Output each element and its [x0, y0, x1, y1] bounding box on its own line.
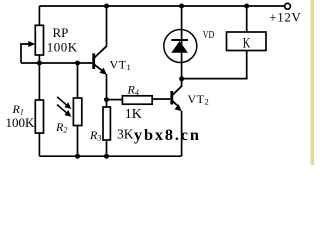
wire: R1 bottom lead [38, 133, 40, 156]
wire: R2 bottom lead [77, 126, 79, 157]
page edge strip [310, 0, 314, 165]
node: rail-VD [179, 4, 184, 9]
diode VD envelope circle [164, 30, 197, 63]
resistor R4 body [122, 96, 152, 104]
node: VT2 collector/VD [179, 76, 184, 81]
relay K coil box [227, 32, 267, 51]
wire: relay K top lead [246, 6, 248, 32]
node: VT1 emitter/R3/R4 [104, 97, 109, 102]
resistor R1 body [35, 100, 43, 133]
wire: VT1 base line [21, 62, 92, 64]
diode VD symbol [171, 40, 188, 53]
svg-text:3K: 3K [117, 127, 134, 142]
transistor VT2 [170, 79, 182, 112]
wire: VT1 emitter lead [106, 74, 108, 107]
terminal: +12V circle [285, 3, 291, 9]
svg-text:ybx8.cn: ybx8.cn [134, 125, 201, 144]
RP wiper arm wire [21, 44, 30, 63]
wire: RP top lead [38, 6, 40, 25]
wire: R2 top lead [77, 63, 79, 98]
wire: VT2 emitter lead [181, 111, 183, 156]
wire: +12V top rail [39, 5, 284, 7]
wire: VT2 collector to relay [182, 51, 247, 79]
node: R3 bottom rail [104, 154, 109, 159]
node: rail-VT1 collector [104, 4, 109, 9]
svg-text:K: K [243, 36, 251, 52]
photoresistor light arrow 2 [57, 105, 71, 117]
RP wiper arrowhead [28, 41, 35, 47]
wire: R4 right lead to VT2 base [152, 98, 170, 100]
node: R2 base line [75, 61, 80, 66]
resistor R3 body [103, 107, 110, 140]
wire: ground bottom rail [39, 155, 181, 157]
potentiometer RP body [35, 25, 43, 55]
wire: VD top lead [181, 6, 183, 79]
node: rail-relay [244, 4, 249, 9]
svg-text:RP: RP [53, 25, 69, 40]
svg-text:+12V: +12V [269, 9, 301, 24]
transistor VT1 [92, 46, 107, 75]
wire: RP bottom lead [38, 55, 40, 63]
svg-text:1K: 1K [125, 107, 142, 122]
wire: R4 left lead [107, 99, 123, 101]
svg-text:100K: 100K [47, 40, 78, 55]
svg-text:VD: VD [203, 29, 215, 41]
wire: R3 bottom lead [106, 140, 108, 156]
photoresistor light arrow 1 [57, 97, 71, 109]
photoresistor R2 body [73, 98, 81, 126]
svg-text:100K: 100K [6, 115, 36, 130]
node: RP/R1 base line [37, 61, 42, 66]
node: R2 bottom rail [75, 154, 80, 159]
wire: R1 top lead [38, 63, 40, 100]
wire: VT1 collector lead [106, 6, 108, 46]
